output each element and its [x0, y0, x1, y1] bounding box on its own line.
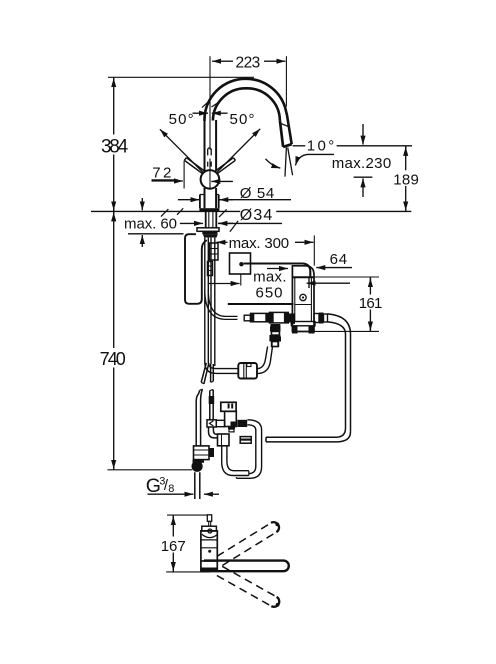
solenoid valve cap [221, 402, 236, 411]
faucet pillar [204, 114, 206, 208]
lever arm right [215, 158, 236, 175]
svg-text:10°: 10° [307, 137, 335, 154]
svg-text:72: 72 [152, 165, 171, 182]
control box screw [300, 294, 306, 300]
hose from weight up to connector [257, 347, 273, 374]
svg-text:740: 740 [100, 349, 126, 369]
spray head joint band [280, 123, 289, 126]
64 arrow line [316, 267, 352, 269]
G3/8 arrows [148, 493, 194, 495]
base cylinder [200, 195, 219, 209]
bottom view swivel arm [204, 561, 289, 572]
control box lid line [292, 276, 314, 278]
T fitting lower on pipe 1 [194, 446, 210, 460]
deck line [91, 210, 411, 212]
cartridge marks inside pillar [208, 148, 212, 156]
lower dashed arm [217, 566, 277, 606]
mounting nut [202, 231, 217, 234]
control box left inlet fitting [286, 314, 293, 323]
extension line bottom G3/8 [108, 469, 193, 471]
bottom view head inlet hole [208, 529, 212, 533]
sensor cable to control box [244, 264, 311, 278]
72 arrow [152, 180, 184, 182]
check valve chain [244, 315, 250, 321]
control box bottom flange [291, 322, 315, 326]
elbow fitting under T [209, 427, 218, 438]
cable direction arrow [267, 268, 288, 270]
hose curve to check valves [205, 290, 238, 319]
ball leader arrow [211, 180, 233, 182]
ball joint [192, 461, 202, 471]
mounting shank [206, 211, 217, 227]
max.230 bottom tick [354, 176, 373, 178]
spray hose loop with counterweight [205, 362, 239, 373]
dimension max.300 arrows [216, 241, 227, 243]
extension line spout top [108, 76, 254, 78]
max.650 underline [228, 303, 294, 305]
spray hose connector stack [270, 327, 281, 332]
check valve down branch [270, 324, 280, 329]
spray head tip cap [283, 144, 292, 147]
svg-text:max. 300: max. 300 [229, 235, 290, 252]
bottom view head lower dark band [201, 568, 217, 572]
hose to control box pipe (left section) [224, 446, 249, 473]
bottom view collar arc [202, 534, 217, 537]
dimension 161 extension lines [308, 276, 379, 278]
svg-text:189: 189 [393, 171, 419, 188]
counterweight [238, 363, 257, 379]
dimension 223 line [211, 60, 286, 62]
supply pipe 1 [196, 400, 200, 446]
crossing hoses with breaks [201, 363, 209, 384]
dimension dia54 line [219, 199, 291, 201]
dimension 740 line [113, 212, 115, 221]
max.650 arrow [208, 283, 240, 285]
max.60 leader underline [128, 233, 184, 235]
dimension 384 line [113, 78, 115, 86]
svg-text:8: 8 [168, 483, 174, 495]
svg-text:max.: max. [253, 269, 286, 286]
escutcheon flare [203, 234, 218, 237]
72 underline [152, 179, 175, 181]
sensor box dot [239, 262, 243, 266]
svg-text:161: 161 [359, 295, 383, 312]
svg-text:167: 167 [161, 538, 186, 555]
dimension dia34 line [218, 222, 282, 224]
cable loop left [185, 234, 207, 304]
svg-text:max.230: max.230 [332, 155, 392, 172]
control box inner frame [294, 277, 296, 321]
long pipe from control box [266, 428, 351, 442]
dimension 161 line [369, 277, 371, 294]
max.230 bottom arrow [362, 178, 364, 197]
stream line tilted [288, 148, 293, 176]
10 deg leader with arrow [295, 154, 334, 165]
svg-text:Ø34: Ø34 [240, 207, 273, 224]
angle arc with arrow [266, 159, 281, 168]
max.650 stub below sensor box [240, 274, 242, 285]
box leader arrow [307, 282, 350, 284]
sensor box [230, 253, 251, 274]
dimension 10 deg line [293, 145, 306, 147]
max.230 top arrow [362, 124, 364, 145]
svg-text:650: 650 [256, 285, 283, 302]
supply pipe 2 [210, 390, 213, 420]
mounting washer [197, 228, 219, 232]
extension line right of 223 [285, 56, 287, 106]
hose bundle verticals [205, 238, 209, 362]
svg-text:384: 384 [101, 136, 129, 157]
T fitting upper [207, 420, 216, 427]
72 extension line at lever tip [183, 161, 185, 189]
pipe to G3/8 [195, 472, 200, 499]
spout outer curve [204, 79, 291, 144]
base plate [199, 208, 219, 211]
bottom view hose stub [207, 515, 211, 522]
upper dashed arm [217, 523, 276, 566]
spray head left edge [280, 120, 283, 146]
pipe2 dark bands [209, 396, 215, 404]
dimension 167 extension lines [167, 514, 208, 516]
lever ball [201, 170, 220, 189]
control box outline [292, 266, 314, 332]
fittings right of valve [237, 420, 247, 427]
hose to control box pipe (right section) [236, 420, 261, 479]
extension line centerline of pillar [209, 56, 211, 189]
svg-text:50°: 50° [230, 111, 255, 128]
dimension max.60 arrows [141, 198, 143, 210]
svg-text:50°: 50° [169, 111, 194, 128]
svg-text:64: 64 [330, 251, 348, 268]
cable connector stack [210, 243, 219, 260]
bottom view head body [201, 531, 217, 561]
dimension 167 line [172, 515, 174, 536]
solenoid bottom stub [228, 427, 235, 430]
oblique ticks at pillar top [202, 102, 208, 107]
50 deg leader right [216, 129, 260, 173]
50 deg leader left [160, 129, 204, 173]
svg-text:max. 60: max. 60 [124, 215, 177, 232]
dimension 189 line [405, 146, 407, 170]
bottom view head cap [202, 526, 217, 531]
extension line right of max.300 [313, 235, 315, 265]
deck hatch ticks [161, 208, 238, 231]
swivel arrows at pillar top [193, 112, 209, 114]
stream line vertical [285, 148, 286, 177]
fitting below T [193, 460, 205, 463]
lever arm left [184, 158, 205, 175]
control box outlet fitting [314, 314, 319, 323]
solenoid valve body [225, 411, 237, 426]
svg-text:223: 223 [236, 54, 261, 71]
svg-text:Ø 54: Ø 54 [240, 185, 275, 202]
spout inner curve [213, 88, 280, 120]
outlet elbow [328, 314, 351, 334]
long pipe end fitting [240, 437, 251, 444]
